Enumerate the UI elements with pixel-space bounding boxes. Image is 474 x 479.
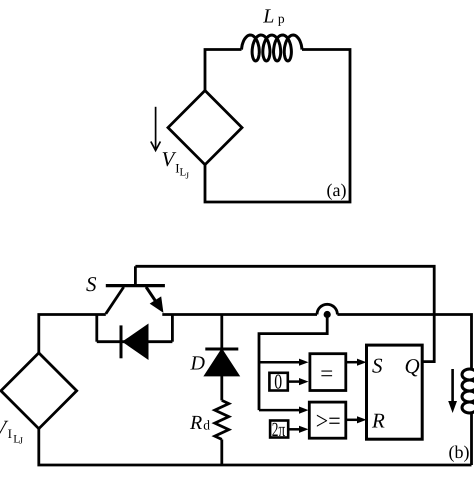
svg-text:S: S	[86, 272, 97, 296]
svg-text:J: J	[19, 437, 23, 447]
svg-text:S: S	[372, 354, 383, 378]
svg-text:0: 0	[274, 370, 282, 394]
svg-text:I: I	[8, 426, 12, 441]
svg-text:>=: >=	[316, 408, 341, 435]
svg-text:Q: Q	[405, 354, 420, 378]
svg-text:L: L	[262, 6, 274, 28]
svg-text:d: d	[203, 417, 210, 432]
svg-text:(b): (b)	[449, 442, 470, 462]
svg-text:J: J	[186, 171, 190, 181]
svg-text:p: p	[278, 11, 285, 26]
svg-text:R: R	[189, 412, 202, 434]
svg-text:R: R	[371, 409, 385, 433]
svg-text:=: =	[320, 361, 333, 386]
svg-text:D: D	[190, 353, 206, 375]
svg-text:(a): (a)	[327, 180, 347, 200]
svg-text:2π: 2π	[272, 419, 285, 441]
